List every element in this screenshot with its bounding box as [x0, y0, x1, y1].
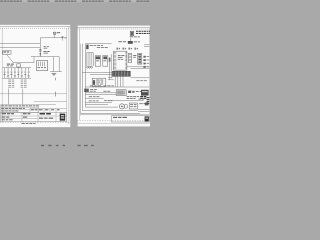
wire lower rail 4: [85, 102, 112, 104]
IC U3 small: [128, 41, 133, 44]
zone divider line 1: [0, 93, 67, 95]
right schematic page: [77, 25, 152, 127]
capacitor group C20: [143, 56, 149, 58]
label C3 value: [7, 75, 9, 78]
wire secondary rail: [13, 62, 34, 64]
wire diagonal feed: [7, 54, 14, 62]
capacitor C3: [7, 68, 9, 78]
logo mark right: [145, 116, 149, 121]
label drawing title PWR SCH: [40, 113, 51, 115]
label sheet footer: [22, 123, 36, 124]
transistor Q1: [84, 89, 89, 92]
capacitor C4: [11, 68, 13, 78]
label BR1: [7, 64, 14, 65]
capacitor C7: [21, 68, 23, 78]
relay K1 box: [129, 103, 137, 109]
notes table: [1, 105, 39, 113]
label J3 pins: [90, 44, 103, 47]
rectifier BR1 box: [17, 64, 21, 67]
node TP1 stub: [62, 36, 64, 41]
wire mid rail 2: [90, 73, 113, 75]
wire bottom rail B: [82, 110, 128, 112]
label U1: [118, 54, 125, 57]
node tick T2: [55, 92, 57, 97]
buzzer LS1: [119, 104, 124, 109]
title block: [1, 108, 67, 121]
IC U4 dark: [141, 90, 149, 96]
connector edge right: [147, 97, 150, 104]
label title row: [31, 109, 37, 110]
label doc numbers: [2, 113, 14, 114]
wire right rails: [127, 66, 149, 68]
connector J3: [86, 45, 88, 50]
label scale sheet: [2, 119, 13, 120]
diode D1: [39, 53, 41, 54]
wire feed down right: [22, 89, 24, 105]
label C2 value: [3, 73, 5, 76]
inductor L1 windings: [87, 53, 94, 66]
bus block: [112, 71, 130, 76]
wire gnd filter rail: [2, 77, 31, 79]
connector J7: [116, 90, 126, 96]
label J1: [64, 36, 66, 39]
zone divider line 2: [34, 101, 67, 103]
title strip: [112, 116, 150, 122]
IC U2: [128, 54, 131, 63]
wire mid rail 1: [82, 72, 113, 74]
wire left of IC b: [110, 54, 112, 78]
wire +5V rail top: [40, 37, 62, 39]
jumper JP1: [109, 58, 111, 62]
label +5V: [57, 32, 60, 33]
label R12: [89, 95, 100, 98]
wire bus pair: [85, 86, 149, 88]
wire bottom rail C: [81, 113, 140, 115]
wire return rail left: [0, 47, 40, 49]
label D5: [136, 90, 142, 93]
wire vertical quad: [114, 76, 116, 87]
wire bottom rail A: [85, 106, 118, 108]
wire drop to J2: [53, 57, 55, 72]
capacitor C1 plates: [39, 48, 41, 51]
wire rail tie: [33, 57, 35, 63]
label C5 value: [14, 75, 16, 78]
connector J6: [103, 56, 108, 67]
resistor network RN1: [138, 54, 142, 65]
capacitor C9: [28, 68, 30, 78]
diode D5: [128, 91, 131, 93]
status bar text: [41, 145, 65, 146]
oscillator Y1: [92, 78, 106, 86]
wire bottom margin line: [80, 114, 82, 116]
label top bus: [118, 41, 126, 42]
label C7 value: [21, 75, 23, 78]
node tick T1: [55, 78, 57, 80]
label K1: [139, 102, 146, 105]
wire feed down left: [7, 89, 9, 105]
wire U3 stub: [129, 38, 131, 41]
logo mark: [60, 114, 65, 121]
capacitor C5: [14, 68, 16, 78]
transformer T1 box: [3, 51, 11, 54]
label C15 value: [44, 45, 50, 48]
wire lower rail 5: [85, 103, 108, 105]
label J9: [138, 98, 144, 101]
capacitor C8: [24, 68, 26, 78]
wire riser: [39, 38, 41, 44]
label texts right mid: [127, 95, 139, 98]
label net right: [104, 99, 112, 102]
connector J2: [37, 61, 48, 71]
label bus names: [90, 84, 101, 87]
capacitor C30: [145, 102, 149, 105]
wire board top edge: [85, 43, 111, 45]
label D1: [43, 50, 49, 53]
label C6 value: [17, 73, 19, 76]
capacitor C2: [4, 68, 6, 78]
revision table: [136, 31, 151, 32]
wire left of IC a: [109, 58, 111, 80]
label C4 value: [10, 73, 12, 76]
label U2: [133, 54, 136, 57]
wire lower rail 3: [85, 97, 103, 99]
wire +V filter rail: [2, 67, 31, 69]
ground: [52, 73, 57, 75]
wire mid rail: [31, 56, 59, 58]
left schematic page: [0, 25, 71, 128]
pins L1 pads: [86, 66, 92, 68]
wire left drop A: [81, 44, 83, 111]
label cap values column 1: [8, 79, 14, 82]
wire rails bottom right: [138, 109, 149, 111]
fuse F1: [54, 35, 56, 38]
label C9 value: [28, 75, 30, 78]
label Q1: [90, 88, 97, 91]
IC U1 VR4181: [114, 51, 127, 70]
capacitor row C40-C43: [117, 48, 138, 50]
wire regulator branch: [39, 43, 41, 56]
connector P1: [130, 31, 134, 36]
label C8 value: [24, 73, 26, 76]
wire long rail E: [108, 100, 144, 102]
wire gnd link: [50, 71, 62, 73]
label cap values column 2: [21, 79, 27, 82]
label net names right: [136, 79, 146, 82]
wire full width rail: [81, 114, 150, 116]
wire VIN rail left: [0, 42, 40, 44]
capacitor C6: [18, 68, 20, 78]
label P1: [130, 35, 140, 38]
connector J5: [95, 56, 100, 67]
notes table top extension: [38, 104, 56, 106]
label rev cells: [2, 117, 10, 118]
